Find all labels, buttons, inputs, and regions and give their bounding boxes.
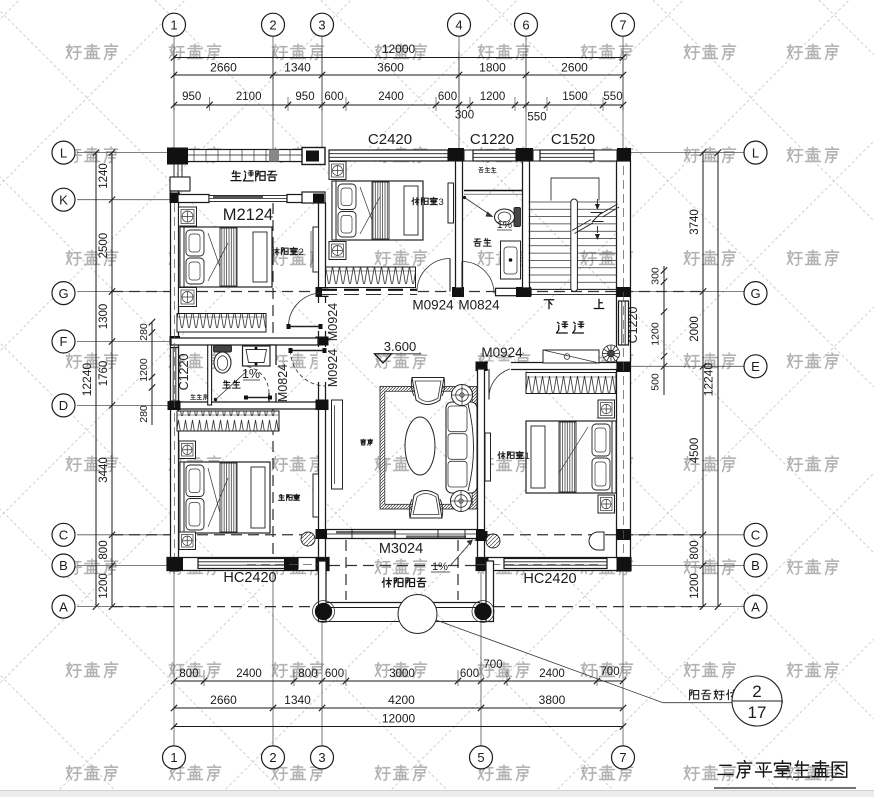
svg-text:1240: 1240 <box>98 163 110 189</box>
stool bedroom1 <box>486 534 500 548</box>
door master M0924 on axis3 <box>291 351 327 387</box>
nightstand bd1 bottom <box>598 495 615 513</box>
axis5 wall vertical <box>478 369 485 566</box>
wardrobe master <box>177 411 279 431</box>
svg-text:12000: 12000 <box>382 712 416 726</box>
axis circles <box>163 13 186 36</box>
svg-text:3.600: 3.600 <box>384 339 417 354</box>
svg-text:800: 800 <box>689 540 701 559</box>
svg-text:800: 800 <box>179 668 198 680</box>
svg-text:2600: 2600 <box>561 61 588 75</box>
door bedroom1 M0924 <box>489 369 510 400</box>
svg-text:3600: 3600 <box>377 61 404 75</box>
svg-text:2100: 2100 <box>236 91 262 103</box>
stair rail diagonal with break <box>572 204 619 234</box>
label 休闲阳台 <box>382 578 426 587</box>
label 公卫 <box>474 238 491 246</box>
door bedroom3 M0924 <box>417 259 450 292</box>
stair landing <box>551 178 599 201</box>
column A3xL <box>302 148 325 165</box>
svg-text:F: F <box>60 334 68 349</box>
svg-text:4500: 4500 <box>689 438 701 464</box>
svg-text:B: B <box>751 558 760 573</box>
column A4xL <box>448 148 464 162</box>
bath partition <box>464 190 522 192</box>
nightstand b2 top <box>179 207 197 226</box>
svg-text:2000: 2000 <box>689 316 701 342</box>
svg-text:600: 600 <box>438 91 457 103</box>
svg-text:1200: 1200 <box>98 573 110 599</box>
svg-text:2400: 2400 <box>236 668 262 680</box>
svg-text:A: A <box>59 599 68 614</box>
armchair bottom <box>410 491 442 519</box>
svg-text:550: 550 <box>603 91 622 103</box>
svg-text:1: 1 <box>170 750 177 765</box>
bottom ui bar <box>0 791 874 797</box>
console table hallway <box>543 350 599 363</box>
nightstand master bottom <box>179 532 196 550</box>
svg-text:M0824: M0824 <box>276 364 290 402</box>
balcony side rails <box>319 561 327 622</box>
svg-text:600: 600 <box>324 91 343 103</box>
svg-text:800: 800 <box>298 668 317 680</box>
svg-text:C1220: C1220 <box>470 131 514 148</box>
wardrobe bedroom1 <box>526 373 616 394</box>
svg-text:C1520: C1520 <box>551 131 595 148</box>
dimensions top <box>174 51 623 111</box>
coffee table living <box>405 417 435 475</box>
wall D <box>171 402 322 409</box>
svg-text:1%: 1% <box>242 367 260 381</box>
dresser on axis3 wall bedroom2 <box>313 227 319 272</box>
axis6 wall vertical (bath/stairs) <box>523 161 530 288</box>
d-symbol bedroom1 <box>589 532 604 550</box>
sliding door M3024 on row C <box>326 530 477 539</box>
door 公卫 M0824 <box>462 262 494 294</box>
window C1520 <box>540 150 594 161</box>
svg-text:M0824: M0824 <box>458 298 500 313</box>
svg-text:2660: 2660 <box>210 693 237 707</box>
svg-text:3: 3 <box>318 750 325 765</box>
grid axis lines <box>77 37 744 746</box>
door bedroom2 M0924 on axis3 <box>289 293 323 327</box>
svg-text:950: 950 <box>295 91 314 103</box>
label 客厅 <box>361 439 373 445</box>
detail circle 2/17 <box>732 676 782 726</box>
svg-text:3440: 3440 <box>98 457 110 483</box>
svg-text:6: 6 <box>522 17 529 32</box>
svg-text:M0924: M0924 <box>326 349 340 387</box>
side table bottom <box>451 491 472 512</box>
svg-text:1%: 1% <box>432 561 448 573</box>
svg-text:1200: 1200 <box>650 322 662 346</box>
dimensions left <box>96 153 152 607</box>
bed bedroom3 <box>332 181 423 240</box>
bed bedroom1 (head east) <box>526 421 616 493</box>
TV cabinet <box>332 400 343 489</box>
mirror bedroom1 <box>485 433 491 481</box>
svg-text:12000: 12000 <box>382 42 416 56</box>
svg-text:M3024: M3024 <box>379 541 423 557</box>
sofa living <box>446 402 477 493</box>
svg-text:C1220: C1220 <box>177 354 191 391</box>
svg-text:A: A <box>751 599 760 614</box>
label 生活阳台 <box>231 171 277 181</box>
label 主卫 <box>223 380 240 388</box>
svg-text:2400: 2400 <box>378 91 404 103</box>
label 主卧室 <box>279 494 300 500</box>
dimensions right <box>664 153 718 607</box>
mirror bedroom3 <box>448 183 454 223</box>
stair stringer <box>571 199 578 292</box>
door bathroom 主卫 <box>242 366 269 393</box>
balcony corner column right <box>474 603 491 620</box>
svg-text:G: G <box>58 286 68 301</box>
window C1220 top <box>464 150 473 161</box>
svg-text:1760: 1760 <box>98 361 110 387</box>
label 上 <box>594 299 604 308</box>
svg-text:2400: 2400 <box>539 668 565 680</box>
toilet master bath <box>214 346 232 353</box>
nightstand b2 bottom <box>179 288 197 307</box>
svg-text:12240: 12240 <box>80 363 94 397</box>
svg-text:2660: 2660 <box>210 61 237 75</box>
column A6xL <box>516 148 533 162</box>
svg-text:600: 600 <box>325 668 344 680</box>
svg-text:3: 3 <box>439 197 444 208</box>
dresser master on axis3 <box>313 474 319 517</box>
svg-text:5: 5 <box>477 750 484 765</box>
svg-text:1200: 1200 <box>689 573 701 599</box>
svg-text:K: K <box>59 192 68 207</box>
rug living room <box>380 387 477 510</box>
svg-text:1%: 1% <box>497 219 512 231</box>
axis4 wall vertical (bedroom3/bath) <box>456 161 463 288</box>
svg-text:3: 3 <box>318 17 325 32</box>
column A1xL <box>167 148 188 165</box>
label 次卧室2 <box>272 247 304 258</box>
svg-text:700: 700 <box>600 666 619 678</box>
svg-text:300: 300 <box>455 110 474 122</box>
svg-text:C: C <box>751 527 760 542</box>
window HC2420 left <box>198 559 298 569</box>
svg-text:1340: 1340 <box>284 61 311 75</box>
label 次卧室1 <box>498 451 530 462</box>
towel rail master bath <box>246 397 270 399</box>
svg-text:C2420: C2420 <box>368 131 412 148</box>
svg-text:280: 280 <box>138 405 150 423</box>
label 下 <box>544 300 554 309</box>
svg-text:M2124: M2124 <box>223 206 273 224</box>
svg-text:E: E <box>751 359 760 374</box>
armchair top <box>412 378 444 405</box>
window C2420 <box>329 150 448 161</box>
svg-text:1200: 1200 <box>138 358 150 382</box>
wall F (bedroom2 bottom) <box>171 338 318 345</box>
svg-text:1500: 1500 <box>562 91 588 103</box>
svg-text:1: 1 <box>525 451 530 462</box>
bed master <box>180 462 270 533</box>
svg-text:1800: 1800 <box>479 61 506 75</box>
watermark text grid 好盖房 <box>66 44 117 59</box>
svg-text:3740: 3740 <box>689 209 701 235</box>
svg-text:B: B <box>59 558 68 573</box>
svg-text:L: L <box>752 145 759 160</box>
bottom wall B left part with HC2420 <box>167 558 329 571</box>
tiny label 淋浴房 <box>190 394 207 399</box>
right outer wall axis7 <box>617 161 631 571</box>
drain leader master bath <box>214 398 217 401</box>
balcony corner column left <box>315 603 332 620</box>
svg-text:M0924: M0924 <box>481 345 523 360</box>
wardrobe bedroom2 <box>177 314 266 333</box>
svg-text:7: 7 <box>619 17 626 32</box>
balcony bottom rail <box>327 602 480 604</box>
svg-text:D: D <box>59 398 68 413</box>
left outer wall axis1 <box>171 191 179 571</box>
washer public bath <box>501 241 521 279</box>
wardrobe bedroom3 <box>326 267 416 288</box>
svg-text:4200: 4200 <box>388 693 415 707</box>
svg-text:1300: 1300 <box>98 304 110 330</box>
svg-text:2: 2 <box>269 750 276 765</box>
balcony circle feature <box>398 595 437 634</box>
svg-text:3000: 3000 <box>389 668 415 680</box>
nightstand b3 top <box>329 162 346 180</box>
leader 阳台栏杆 <box>436 620 783 703</box>
nightstand b3 bottom <box>329 242 346 260</box>
svg-text:2: 2 <box>269 17 276 32</box>
svg-text:1200: 1200 <box>480 91 506 103</box>
svg-text:4: 4 <box>455 17 462 32</box>
svg-text:M0924: M0924 <box>412 298 454 313</box>
side table top <box>452 385 473 406</box>
svg-text:300: 300 <box>650 267 662 285</box>
window C1220 right wall <box>619 301 629 345</box>
svg-text:HC2420: HC2420 <box>223 570 276 586</box>
dimensions bottom <box>174 670 623 727</box>
svg-text:800: 800 <box>98 540 110 559</box>
stairs <box>529 202 618 290</box>
top wall row L <box>186 150 304 162</box>
plant hallway <box>603 345 620 362</box>
svg-text:HC2420: HC2420 <box>523 571 576 587</box>
nightstand bd1 top <box>598 400 615 418</box>
tiny label 洗衣机 <box>479 167 497 172</box>
bed bedroom2 <box>180 227 272 287</box>
bathroom wall axis2 vertical <box>269 345 276 406</box>
svg-text:C1220: C1220 <box>626 307 640 344</box>
stool master <box>301 532 315 546</box>
svg-text:L: L <box>60 145 67 160</box>
svg-text:1340: 1340 <box>284 693 311 707</box>
drain leader <box>463 196 466 199</box>
svg-text:550: 550 <box>527 112 546 124</box>
svg-text:1: 1 <box>170 17 177 32</box>
svg-text:C: C <box>59 527 68 542</box>
window HC2420 right <box>504 559 607 569</box>
svg-text:M0924: M0924 <box>326 303 340 341</box>
window C1220 left wall <box>171 348 179 403</box>
columns on G <box>452 287 464 297</box>
label 次卧室3 <box>412 197 444 208</box>
svg-text:700: 700 <box>483 659 502 671</box>
label 过道 <box>556 322 583 333</box>
bottom wall B right part with HC2420 <box>477 558 631 571</box>
axis dashed inside walls <box>174 203 176 557</box>
shower partition wall <box>208 345 212 405</box>
svg-text:2500: 2500 <box>98 233 110 259</box>
wall E hallway/bedroom1 <box>477 363 617 370</box>
svg-text:280: 280 <box>138 323 150 341</box>
svg-text:950: 950 <box>182 91 201 103</box>
svg-text:3800: 3800 <box>539 693 566 707</box>
svg-text:12240: 12240 <box>702 363 716 397</box>
nightstand master top <box>179 441 196 459</box>
svg-text:17: 17 <box>748 703 767 722</box>
svg-text:600: 600 <box>460 668 479 680</box>
wall K with door M2124 <box>178 195 209 203</box>
axis3 wall vertical <box>319 203 326 566</box>
title 二层平面布置图 <box>718 761 847 778</box>
sink master bath <box>243 346 271 366</box>
toilet public bath <box>514 208 521 227</box>
svg-text:2: 2 <box>752 682 761 701</box>
svg-text:G: G <box>750 286 760 301</box>
svg-text:2: 2 <box>299 247 304 258</box>
wall G from axis3 to axis7 <box>322 288 417 295</box>
column A7xL <box>617 148 631 162</box>
svg-text:7: 7 <box>619 750 626 765</box>
svg-text:500: 500 <box>650 373 662 391</box>
